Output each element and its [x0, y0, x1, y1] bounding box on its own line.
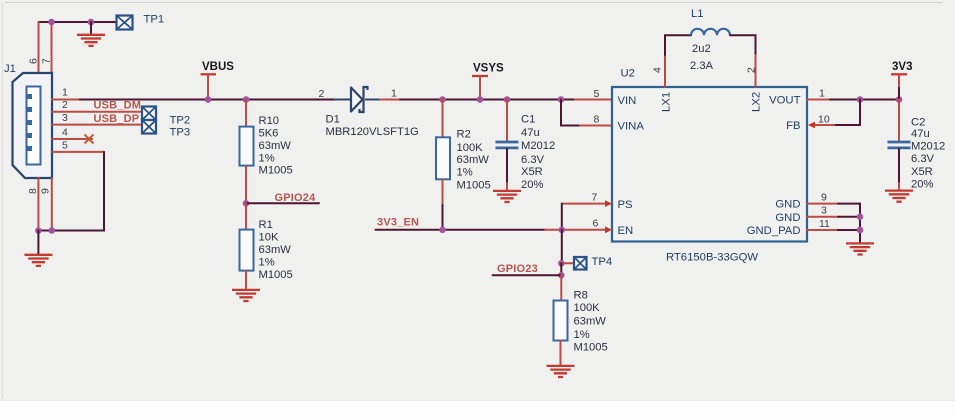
svg-text:47u: 47u [911, 128, 930, 140]
node: junction pin7 / top wire [48, 19, 55, 26]
svg-text:7: 7 [41, 58, 53, 64]
svg-text:R1: R1 [259, 219, 273, 231]
pin number 4 (rotated, LX1) [652, 67, 664, 73]
pin name LX1 (rotated) [661, 92, 673, 112]
svg-text:U2: U2 [621, 68, 635, 80]
label R2 values [457, 128, 491, 191]
svg-text:1%: 1% [457, 167, 473, 179]
diode D1 (Schottky MBR120VLSFT1G) [351, 87, 368, 112]
svg-text:1%: 1% [574, 329, 590, 341]
wire: pin 5 loop down to ground node [52, 152, 104, 231]
svg-text:1: 1 [391, 88, 397, 100]
node: junction FB tap [857, 96, 864, 103]
power symbol VSYS tick [472, 76, 488, 100]
wire: C1 top lead [506, 100, 508, 141]
pin number 8 (rotated) [27, 188, 39, 194]
svg-text:5: 5 [62, 139, 68, 151]
net label VSYS [473, 63, 504, 75]
svg-text:6: 6 [593, 218, 599, 230]
wire: J1 pin 9 vertical stub [51, 178, 53, 231]
svg-text:USB_DP: USB_DP [94, 113, 140, 125]
wire: R8 bottom lead [560, 341, 562, 365]
label R8 values [574, 289, 608, 353]
svg-text:47u: 47u [521, 127, 540, 139]
label L1 [691, 8, 704, 20]
svg-text:1%: 1% [259, 152, 275, 164]
label TP4 [592, 256, 613, 268]
label 2u2 [692, 43, 711, 55]
svg-text:VINA: VINA [618, 121, 645, 133]
svg-text:20%: 20% [911, 179, 933, 191]
test point TP4 [574, 257, 587, 270]
ground (under C1) [493, 191, 521, 202]
net label 3V3_EN [377, 217, 419, 229]
node: junction VSYS [477, 96, 484, 103]
no-connect X on pin 4 [85, 135, 94, 144]
svg-text:M1005: M1005 [259, 269, 293, 281]
pin number 6 (rotated) [28, 58, 40, 64]
node: junction R2 top [439, 96, 446, 103]
svg-text:6.3V: 6.3V [911, 153, 935, 165]
label J1 [4, 63, 16, 75]
wire: GND_PAD pin 11 [807, 229, 860, 231]
wire: down to ground symbol [37, 231, 39, 254]
svg-text:R8: R8 [574, 289, 588, 301]
svg-text:5: 5 [594, 88, 600, 100]
node: junction VBUS/main wire [205, 96, 212, 103]
label RT6150B-33GQW [666, 252, 758, 264]
wire: GPIO23 net [493, 274, 562, 276]
svg-text:C1: C1 [521, 114, 535, 126]
capacitor C2 [888, 142, 911, 148]
svg-text:63mW: 63mW [259, 244, 292, 256]
wire: down to GPIO23 tap [560, 263, 562, 275]
svg-text:C2: C2 [911, 117, 925, 129]
pin number 10 (FB) [818, 114, 830, 126]
svg-text:1: 1 [819, 88, 825, 100]
pin number 8 (VINA) [594, 114, 600, 126]
svg-text:10: 10 [818, 114, 830, 126]
svg-text:VIN: VIN [618, 95, 637, 107]
svg-text:GPIO23: GPIO23 [497, 263, 538, 275]
pin number 2 [62, 99, 68, 111]
wire: EN branch down to TP4/GPIO23/R8 [561, 230, 563, 263]
ground (under J1) [24, 255, 52, 266]
wire: R10 top lead [245, 100, 247, 127]
node: junction ground tap on top wire [88, 19, 95, 26]
pin number 5 (VIN) [594, 88, 600, 100]
wire: J1 pin 6 vertical stub [38, 22, 40, 73]
svg-text:11: 11 [819, 218, 830, 230]
ground (under C2) [885, 191, 913, 202]
svg-text:R2: R2 [457, 128, 471, 140]
node: junction VIN/VINA branch [558, 96, 565, 103]
resistor R10 [240, 127, 254, 166]
svg-text:VOUT: VOUT [769, 95, 800, 107]
label R10 values [259, 115, 293, 176]
diode D1 cathode stub [365, 99, 400, 101]
wire: EN / 3V3_EN net [376, 226, 613, 233]
svg-text:4: 4 [652, 67, 664, 73]
node: junction R2/EN net [439, 227, 446, 234]
svg-text:100K: 100K [457, 142, 484, 154]
label C2 values [911, 117, 945, 191]
wire: J1 pin 4 stub (unconnected) [52, 138, 92, 140]
svg-text:RT6150B-33GQW: RT6150B-33GQW [666, 252, 758, 264]
svg-text:6: 6 [28, 58, 40, 64]
svg-text:2: 2 [319, 88, 325, 100]
svg-text:8: 8 [594, 114, 600, 126]
pin name PS [618, 199, 634, 211]
svg-text:63mW: 63mW [457, 154, 490, 166]
wire: PS to EN vertical [561, 204, 563, 230]
pin number 9 [821, 191, 827, 203]
svg-text:M1005: M1005 [457, 179, 491, 191]
svg-text:63mW: 63mW [574, 316, 607, 328]
node: junction pin8/ground [35, 227, 42, 234]
test point TP3 [142, 120, 156, 134]
label TP1 [144, 14, 165, 26]
svg-text:7: 7 [592, 191, 598, 203]
node: junction 3V3/C2 [896, 96, 903, 103]
ground (top, near TP1) [77, 35, 105, 46]
pin number 11 [819, 218, 830, 230]
svg-text:3: 3 [62, 112, 68, 124]
svg-text:FB: FB [786, 120, 800, 132]
wire: stub to TP4 [561, 262, 574, 264]
net label GPIO23 [497, 263, 538, 275]
pin number 7 (rotated) [41, 58, 53, 64]
ground (under R1) [232, 290, 260, 301]
svg-text:VBUS: VBUS [202, 61, 234, 73]
svg-text:4: 4 [62, 127, 68, 139]
label U2 [621, 68, 635, 80]
svg-text:GND: GND [775, 199, 800, 211]
svg-text:GPIO24: GPIO24 [275, 192, 317, 204]
wire: R10 bottom lead [245, 166, 247, 204]
wire: C2 bottom lead [898, 149, 900, 189]
pin number 3 [821, 205, 827, 217]
svg-text:2u2: 2u2 [692, 43, 711, 55]
svg-text:M1005: M1005 [259, 165, 293, 177]
pin name VOUT [769, 95, 800, 107]
wire: VBUS main net [80, 99, 334, 101]
wire: FB net with arrow into U2 [808, 100, 860, 129]
svg-text:9: 9 [821, 191, 827, 203]
svg-text:3V3: 3V3 [892, 61, 912, 73]
svg-text:M2012: M2012 [911, 140, 945, 152]
wire: R2 top lead [442, 100, 444, 138]
wire: L1 to LX2 [730, 35, 756, 87]
svg-text:6.3V: 6.3V [521, 154, 545, 166]
pin name FB [786, 120, 800, 132]
net label GPIO24 [275, 192, 317, 204]
wire: VINA branch [561, 100, 612, 126]
pin name VINA [618, 121, 645, 133]
svg-text:J1: J1 [4, 63, 16, 75]
svg-text:2.3A: 2.3A [690, 60, 714, 72]
wire: J1 pin 3 to TP3 (USB_DP) [52, 124, 142, 126]
label R1 values [259, 219, 293, 281]
svg-text:EN: EN [618, 225, 634, 237]
pin name EN [618, 225, 634, 237]
inductor L1 coil [691, 29, 730, 35]
label TP3 [170, 127, 191, 139]
pin number 1 (VOUT) [819, 88, 825, 100]
wire: ground node horizontal [38, 230, 51, 232]
test point TP1 [117, 16, 133, 30]
pin number 6 (EN) [593, 218, 599, 230]
label MBR120VLSFT1G [326, 126, 419, 138]
pin number 2 (rotated, LX2) [746, 67, 758, 73]
net label VBUS [202, 61, 234, 73]
power symbol VBUS tick [201, 74, 217, 99]
svg-text:10K: 10K [259, 232, 279, 244]
wire: VSYS net to U2 [400, 99, 612, 101]
wire: PS net with arrow into U2 [562, 200, 612, 207]
node: junction TP4 tap [558, 260, 565, 267]
resistor R1 [240, 230, 254, 271]
wire: J1 pin 8 vertical stub [37, 178, 39, 231]
svg-text:63mW: 63mW [259, 140, 292, 152]
svg-text:VSYS: VSYS [473, 63, 504, 75]
svg-text:TP3: TP3 [170, 127, 191, 139]
svg-text:1: 1 [62, 87, 68, 99]
capacitor C1 [496, 142, 519, 148]
pin number 3 [62, 112, 68, 124]
pin number 7 (PS) [592, 191, 598, 203]
connector J1 inner tongue [27, 87, 41, 165]
wire: J1 pin 5 stub [52, 151, 104, 153]
resistor R8 [554, 301, 568, 341]
pin number 1 (D1 cathode) [391, 88, 397, 100]
wire: LX1 up to L1 [665, 35, 691, 87]
svg-text:20%: 20% [521, 179, 543, 191]
IC U2 body [612, 87, 807, 242]
svg-text:2: 2 [746, 67, 758, 73]
net label USB_DP [94, 113, 140, 125]
ground (under U2 GND pins) [846, 243, 874, 254]
wire: GND pin 3 [807, 216, 860, 218]
svg-text:1%: 1% [259, 257, 275, 269]
svg-text:3V3_EN: 3V3_EN [377, 217, 419, 229]
svg-text:USB_DM: USB_DM [94, 100, 142, 112]
svg-text:100K: 100K [574, 302, 601, 314]
pin name VIN [618, 95, 637, 107]
svg-text:5K6: 5K6 [259, 127, 279, 139]
pin name GND_PAD [747, 225, 801, 237]
node: junction R10 top [243, 96, 250, 103]
svg-text:GND_PAD: GND_PAD [747, 225, 801, 237]
svg-text:X5R: X5R [911, 166, 933, 178]
svg-text:TP4: TP4 [592, 256, 613, 268]
pin number 5 [62, 139, 68, 151]
wire: J1 pin 1 stub [52, 99, 80, 101]
pin number 2 (D1 anode) [319, 88, 325, 100]
wire: J1 pin 2 to TP2 (USB_DM) [52, 111, 142, 113]
wire: C1 bottom lead [506, 149, 508, 190]
label C1 values [521, 114, 555, 191]
wire: C2 top lead [898, 100, 900, 141]
svg-text:D1: D1 [326, 114, 340, 126]
wire: J1 pin 7 vertical stub [51, 22, 53, 73]
svg-text:GND: GND [775, 212, 800, 224]
wire: R1 top lead [245, 203, 247, 229]
svg-text:X5R: X5R [521, 166, 543, 178]
pin number 4 [62, 127, 68, 139]
svg-text:2: 2 [62, 99, 68, 111]
node: junction GND pin 3 [857, 214, 864, 221]
svg-text:R10: R10 [259, 115, 280, 127]
svg-text:LX2: LX2 [751, 92, 763, 112]
svg-text:MBR120VLSFT1G: MBR120VLSFT1G [326, 126, 419, 138]
label D1 [326, 114, 340, 126]
diode D1 anode stub [334, 99, 351, 101]
ground (under R8) [547, 366, 575, 377]
node: junction C1 top [504, 96, 511, 103]
wire: R8 top lead [560, 275, 562, 300]
pin name GND (pin 3) [775, 212, 800, 224]
label TP2 [170, 115, 191, 127]
node: junction GPIO23 tap [558, 272, 565, 279]
power symbol 3V3 tick [891, 74, 907, 99]
connector J1 contact pads [28, 94, 33, 151]
pin name LX2 (rotated) [751, 92, 763, 112]
resistor R2 [436, 137, 450, 179]
net label USB_DM [94, 100, 142, 112]
svg-text:L1: L1 [691, 8, 704, 20]
test point TP2 [142, 107, 156, 121]
svg-text:LX1: LX1 [661, 92, 673, 112]
wire: shield/ground top net from pins 6,7 to TP1 [39, 21, 117, 23]
node: junction R10/R1/GPIO24 [243, 200, 250, 207]
svg-text:M1005: M1005 [574, 341, 608, 353]
pin number 1 [62, 87, 68, 99]
svg-text:PS: PS [618, 199, 634, 211]
wire: R1 bottom lead [245, 271, 247, 289]
wire: GND pin 9 [807, 204, 860, 242]
svg-text:M2012: M2012 [521, 140, 555, 152]
pin number 9 (rotated) [40, 188, 52, 194]
label 2.3A [690, 60, 714, 72]
wire: stub from top wire down to ground [90, 22, 92, 34]
svg-text:TP1: TP1 [144, 14, 165, 26]
wire: GPIO24 net [246, 202, 319, 204]
wire: VOUT net [807, 99, 899, 101]
node: junction EN/PS branch [559, 227, 566, 234]
wire: R2 bottom lead to EN net [442, 179, 444, 230]
net label 3V3 [892, 61, 912, 73]
node: junction GND pin 11 [857, 227, 864, 234]
svg-text:8: 8 [27, 188, 39, 194]
node: junction pin9/loop [49, 227, 56, 234]
svg-text:3: 3 [821, 205, 827, 217]
pin name GND (pin 9) [775, 199, 800, 211]
svg-text:TP2: TP2 [170, 115, 191, 127]
svg-text:9: 9 [40, 188, 52, 194]
connector J1 outer body [13, 73, 53, 178]
